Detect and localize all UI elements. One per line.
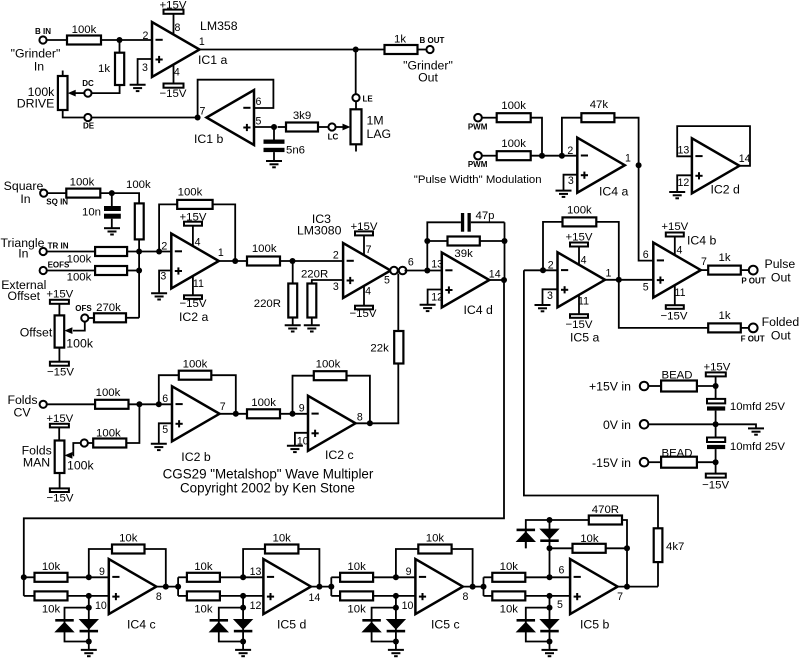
wire diode bottoms (IC5b)	[526, 632, 550, 649]
junction	[393, 574, 399, 580]
potentiometer 100k DRIVE	[17, 71, 68, 111]
svg-text:1k: 1k	[718, 252, 730, 264]
node Folds CV terminal	[40, 401, 47, 408]
svg-text:12: 12	[250, 600, 262, 612]
wire folded out	[619, 280, 708, 328]
junction (IC5d out)	[316, 584, 322, 590]
pin 11 -15V	[661, 285, 688, 322]
junction	[559, 153, 565, 159]
svg-text:10k: 10k	[119, 532, 138, 544]
resistor 100k feedback (IC2c)	[293, 358, 370, 423]
svg-text:100k: 100k	[96, 427, 121, 439]
svg-text:2: 2	[567, 145, 573, 157]
pin 3 ground	[535, 289, 558, 311]
resistor 1k (Grinder out)	[385, 34, 418, 55]
svg-text:+15V: +15V	[566, 231, 593, 243]
label External Offset	[1, 278, 46, 303]
svg-text:10mfd 25V: 10mfd 25V	[730, 441, 785, 453]
wire MAN pot bottom to -15V	[59, 473, 61, 488]
wiper arrow into MAN pot	[64, 443, 80, 459]
node TR IN terminal	[40, 242, 69, 256]
svg-text:5: 5	[557, 599, 563, 611]
resistor 47k feedback	[562, 99, 639, 165]
wire link to IC4d pin 13	[405, 270, 442, 272]
pin 3 ground	[556, 175, 578, 197]
wire 47p right side down	[504, 222, 506, 280]
pin 5 ground	[151, 423, 172, 450]
wire diode bottoms (IC5c)	[372, 632, 396, 649]
-15V (MAN pot)	[47, 488, 74, 504]
op-amp IC1b (mirrored)	[194, 90, 254, 146]
junction	[156, 249, 162, 255]
svg-text:8: 8	[156, 591, 162, 603]
svg-text:IC2 b: IC2 b	[181, 450, 211, 464]
svg-text:B OUT: B OUT	[420, 36, 445, 45]
svg-text:4: 4	[365, 286, 371, 298]
svg-text:14: 14	[309, 592, 321, 604]
pin 10 ground	[287, 433, 309, 452]
node +15V in terminal	[640, 382, 649, 391]
label Triangle In	[1, 236, 45, 261]
junction	[713, 459, 719, 465]
diode (IC5c clamp, cathode up)	[361, 619, 381, 632]
svg-text:10k: 10k	[426, 532, 445, 544]
svg-text:IC2 a: IC2 a	[179, 310, 209, 324]
diode (IC5b upper clamp, cathode up)	[516, 529, 536, 542]
diode (IC5b clamp, cathode up)	[516, 619, 536, 632]
junction	[240, 593, 246, 599]
svg-text:BEAD: BEAD	[661, 448, 692, 460]
wire diode tap (IC5d)	[219, 596, 243, 619]
svg-text:4: 4	[195, 236, 201, 248]
svg-text:PWM: PWM	[468, 160, 488, 169]
svg-text:P OUT: P OUT	[741, 277, 765, 286]
svg-text:100k: 100k	[66, 336, 94, 350]
svg-text:9: 9	[99, 566, 105, 578]
svg-text:+15V: +15V	[703, 361, 730, 373]
junction	[547, 517, 553, 523]
svg-text:7: 7	[220, 401, 226, 413]
junction	[624, 545, 630, 551]
svg-text:DE: DE	[83, 122, 95, 131]
resistor 470R	[589, 504, 627, 548]
resistor 4k7 (vertical)	[654, 528, 685, 586]
wiper arrow into LAG pot	[336, 124, 351, 131]
capacitor 10mfd 25V (upper)	[707, 386, 785, 424]
svg-text:IC1 a: IC1 a	[198, 53, 228, 67]
svg-text:5n6: 5n6	[286, 145, 305, 157]
pin 4 -15V	[350, 286, 377, 320]
junction (IC5b out)	[624, 584, 630, 590]
svg-text:6: 6	[559, 565, 565, 577]
resistor 100k (PWM lower)	[497, 138, 531, 160]
wire EOFS to R	[47, 270, 95, 272]
node DE terminal	[83, 114, 95, 131]
wire junction down to LE	[355, 50, 357, 95]
wiper arrow into DRIVE pot	[68, 90, 85, 97]
junction (input split IC5c)	[328, 584, 334, 590]
svg-text:10: 10	[95, 600, 107, 612]
wire diode bottoms (IC5d)	[219, 632, 243, 649]
svg-text:Offset: Offset	[8, 289, 41, 303]
wire MAN R to junction	[126, 404, 139, 443]
wire IC5d output	[311, 586, 331, 588]
node OFS terminal	[75, 304, 92, 321]
svg-text:6: 6	[256, 96, 262, 108]
wire to junction	[531, 118, 542, 156]
resistor 10k (IC5c non-inverting input)	[331, 591, 415, 615]
svg-text:470R: 470R	[592, 504, 619, 516]
capacitor 10mfd 25V (lower)	[707, 424, 785, 462]
+15V (offset pot)	[46, 288, 73, 315]
svg-text:MAN: MAN	[23, 455, 50, 469]
pin 11 -15V	[566, 295, 593, 331]
svg-text:+15V: +15V	[351, 221, 378, 233]
pin 13 feedback loop	[677, 126, 750, 166]
node B IN terminal	[35, 27, 51, 44]
resistor 220R (right)	[301, 269, 343, 325]
svg-text:7: 7	[200, 106, 206, 118]
diode (IC4c clamp, cathode up)	[54, 619, 74, 632]
resistor 100k (vertical, square)	[126, 179, 151, 252]
node F OUT terminal	[741, 324, 765, 344]
node -15V in terminal	[640, 458, 649, 467]
diode (IC5d clamp, cathode up)	[209, 619, 229, 632]
op-amp IC5b	[570, 559, 618, 632]
wire IC4c output	[156, 586, 178, 588]
svg-text:13: 13	[678, 144, 690, 156]
svg-text:Out: Out	[418, 71, 438, 85]
wire input split IC5d	[177, 577, 179, 596]
svg-text:3: 3	[547, 290, 553, 302]
junction	[393, 593, 399, 599]
node PWM terminal (lower)	[468, 152, 488, 169]
op-amp IC4a	[577, 138, 628, 199]
inductor BEAD (-15V)	[661, 448, 697, 468]
node LE terminal	[352, 94, 373, 103]
wire IC4d output	[489, 279, 504, 281]
op-amp IC4c	[109, 559, 157, 632]
svg-text:10: 10	[402, 600, 414, 612]
svg-text:EOFS: EOFS	[48, 261, 70, 270]
svg-text:In: In	[20, 192, 30, 206]
wire to P OUT	[741, 269, 749, 271]
resistor 100k (triangle in)	[67, 247, 127, 265]
op-amp IC4d	[442, 253, 493, 317]
wire long vertical (to 4k7)	[524, 270, 658, 528]
resistor 22k (vertical)	[370, 274, 403, 424]
wiper arrow into Offset pot	[64, 322, 84, 334]
resistor 10k (IC4c inverting input)	[35, 561, 109, 582]
svg-text:LM3080: LM3080	[297, 224, 342, 238]
wire diode tap (IC5c)	[372, 596, 396, 619]
svg-text:10k: 10k	[580, 533, 599, 545]
junction	[353, 47, 359, 53]
-15V (offset pot)	[47, 362, 74, 379]
wire summing vertical	[138, 252, 140, 318]
svg-text:100k: 100k	[178, 187, 203, 199]
wire PWM2 to R	[482, 155, 497, 157]
node B OUT terminal	[420, 36, 445, 53]
junction	[501, 277, 507, 283]
resistor 10k (IC5c inverting input)	[331, 561, 415, 582]
svg-text:IC5 d: IC5 d	[277, 618, 307, 632]
svg-text:LAG: LAG	[367, 127, 392, 141]
junction	[86, 574, 92, 580]
svg-text:−15V: −15V	[160, 88, 187, 100]
ground (10n)	[104, 228, 120, 234]
svg-text:"Grinder": "Grinder"	[11, 47, 61, 61]
svg-text:11: 11	[675, 287, 686, 299]
junction	[21, 574, 27, 580]
wire to summing line	[127, 270, 139, 272]
svg-text:IC5 b: IC5 b	[580, 618, 610, 632]
svg-text:1k: 1k	[98, 63, 110, 75]
wire bus from IC4d output to bottom row	[24, 280, 504, 596]
svg-text:5: 5	[256, 116, 262, 128]
op-amp IC2a	[171, 234, 219, 324]
svg-text:Folded: Folded	[762, 315, 800, 329]
svg-text:0V in: 0V in	[603, 418, 631, 432]
ground (IC5b diodes)	[542, 650, 558, 656]
potentiometer Folds MAN 100k	[22, 441, 95, 474]
svg-text:10k: 10k	[194, 561, 213, 573]
wire bus into IC4c plus R	[24, 595, 35, 597]
pin 11 -15V	[180, 276, 207, 310]
svg-text:100k: 100k	[567, 205, 592, 217]
svg-text:22k: 22k	[370, 343, 389, 355]
svg-text:Out: Out	[771, 271, 791, 285]
wire upper diode top (IC5b)	[526, 520, 589, 548]
svg-text:+15V: +15V	[46, 288, 73, 300]
svg-text:IC4 a: IC4 a	[599, 184, 629, 198]
svg-text:10: 10	[297, 435, 309, 447]
node 0V in terminal	[640, 420, 649, 429]
wire 470R/10k down to IC5b out	[626, 548, 628, 586]
wire IC2a output	[219, 260, 293, 262]
resistor 100k (folds MAN)	[88, 427, 126, 447]
resistor 10k (IC5d inverting input)	[178, 561, 263, 582]
svg-text:−15V: −15V	[702, 480, 729, 492]
wire IC5a out to IC4b pin 5	[605, 279, 653, 281]
junction	[240, 605, 246, 611]
resistor 100k feedback (IC2b)	[159, 358, 236, 414]
resistor 100k (folds CV)	[95, 387, 128, 409]
svg-text:1: 1	[625, 152, 631, 164]
svg-text:5: 5	[643, 281, 649, 293]
svg-text:In: In	[34, 60, 44, 74]
svg-text:−15V: −15V	[350, 308, 377, 320]
junction (IC4a out)	[636, 162, 642, 168]
svg-text:10k: 10k	[273, 532, 292, 544]
resistor 1k (pulse out)	[708, 252, 741, 275]
resistor 10k (IC5b inverting input)	[484, 561, 571, 582]
svg-text:100k: 100k	[96, 387, 121, 399]
svg-text:4: 4	[581, 254, 587, 266]
svg-text:8: 8	[357, 412, 363, 424]
wire diode tap (IC5b)	[526, 596, 550, 619]
wire TR IN to R	[47, 251, 95, 253]
svg-text:IC4 c: IC4 c	[127, 618, 156, 632]
wire IC5c output	[463, 586, 484, 588]
wire diode bottoms (IC4c)	[65, 632, 89, 649]
svg-text:7: 7	[366, 244, 372, 256]
svg-text:100k: 100k	[252, 243, 277, 255]
junction (IC5c out)	[470, 584, 476, 590]
svg-text:4k7: 4k7	[666, 541, 684, 553]
junction (pin 7)	[195, 115, 201, 121]
resistor 100k (Grinder input)	[67, 24, 101, 45]
resistor 220R (left)	[254, 261, 297, 325]
svg-text:−15V: −15V	[47, 366, 74, 378]
svg-text:IC5 c: IC5 c	[431, 618, 460, 632]
svg-text:10k: 10k	[347, 561, 366, 573]
IC2a feedback 100k	[159, 187, 235, 261]
svg-text:DRIVE: DRIVE	[17, 97, 55, 111]
capacitor 47p feedback	[427, 210, 504, 271]
svg-text:13: 13	[250, 566, 262, 578]
svg-text:5: 5	[162, 424, 168, 436]
op-amp IC1a	[152, 19, 238, 77]
label "Grinder" In	[11, 47, 61, 74]
svg-text:TR IN: TR IN	[48, 242, 69, 251]
diode (IC5b clamp, cathode down)	[539, 619, 559, 632]
svg-text:10n: 10n	[82, 207, 101, 219]
svg-text:12: 12	[431, 291, 443, 303]
wire input split IC5c	[330, 577, 332, 596]
wire bus into IC4c minus R	[24, 576, 35, 578]
svg-text:2: 2	[161, 241, 167, 253]
svg-text:CV: CV	[13, 406, 31, 420]
ground (IC5c diodes)	[388, 650, 404, 656]
junction	[240, 639, 246, 645]
svg-text:6: 6	[162, 393, 168, 405]
pin 12 ground	[669, 175, 692, 198]
junction (IC3 pin 2 node)	[290, 258, 296, 264]
wire to IC2a pin 2	[127, 251, 171, 253]
junction	[539, 153, 545, 159]
junction	[136, 268, 142, 274]
svg-text:4: 4	[676, 245, 682, 257]
wire IC2b out	[220, 413, 309, 415]
svg-text:DC: DC	[82, 79, 94, 88]
svg-text:Out: Out	[771, 329, 791, 343]
junction	[713, 421, 719, 427]
svg-text:10k: 10k	[347, 603, 366, 615]
-15V rail symbol	[702, 462, 729, 492]
wire diode tap (IC4c)	[65, 596, 89, 619]
node LC terminal	[328, 123, 339, 141]
svg-text:1: 1	[606, 267, 612, 279]
junction	[393, 605, 399, 611]
wire to IC4a pin 2	[531, 155, 578, 157]
wire CV to R	[47, 403, 95, 405]
svg-text:−15V: −15V	[47, 493, 74, 505]
wire pot bottom to -15V	[58, 348, 60, 362]
junction (IC4c out)	[163, 584, 169, 590]
svg-text:IC2 c: IC2 c	[325, 448, 354, 462]
junction	[86, 605, 92, 611]
node DC terminal	[82, 79, 94, 97]
junction	[540, 267, 546, 273]
node PWM terminal (upper)	[468, 114, 488, 131]
svg-text:10k: 10k	[500, 561, 519, 573]
junction	[271, 124, 277, 130]
svg-text:100k: 100k	[501, 100, 526, 112]
junction	[86, 593, 92, 599]
svg-text:B IN: B IN	[35, 27, 51, 36]
svg-text:1: 1	[199, 36, 205, 48]
wire IC2c out to 22k	[356, 422, 400, 424]
node link circles (5-6)	[390, 267, 406, 275]
svg-text:13: 13	[431, 259, 443, 271]
wire long feedback to IC5a pin 2	[524, 269, 558, 271]
op-amp IC3 LM3080	[297, 212, 391, 298]
svg-text:100k: 100k	[501, 138, 526, 150]
diode (IC5b upper clamp, cathode down)	[539, 529, 559, 542]
pin 4 +15V	[566, 231, 593, 266]
svg-text:3k9: 3k9	[293, 110, 311, 122]
pin 8 +15V	[160, 0, 187, 35]
op-amp IC2c	[308, 396, 356, 462]
label Square In	[4, 179, 44, 206]
resistor 1k (folded out)	[708, 310, 741, 333]
wire to BEAD	[648, 461, 661, 463]
svg-text:IC4 d: IC4 d	[464, 303, 494, 317]
IC1b feedback wire	[198, 80, 274, 118]
pin 3 ground	[151, 270, 171, 299]
svg-text:10k: 10k	[500, 603, 519, 615]
svg-text:10mfd 25V: 10mfd 25V	[730, 401, 785, 413]
resistor 1k (vertical)	[98, 40, 124, 85]
node MAN terminal	[81, 439, 88, 446]
wire BEAD to -15V rail	[697, 461, 716, 463]
svg-text:14: 14	[489, 269, 501, 281]
svg-text:3: 3	[568, 175, 574, 187]
svg-text:7: 7	[617, 591, 623, 603]
wire pin 5	[254, 126, 274, 128]
svg-text:F OUT: F OUT	[741, 335, 765, 344]
junction	[232, 258, 238, 264]
junction (IC2c out)	[367, 420, 373, 426]
ground (IC4c diodes)	[81, 650, 97, 656]
svg-text:IC4 b: IC4 b	[687, 233, 717, 247]
label Folds CV	[7, 393, 37, 420]
svg-text:3: 3	[333, 281, 339, 293]
junction	[547, 545, 553, 551]
svg-text:-15V in: -15V in	[592, 456, 631, 470]
junction	[713, 383, 719, 389]
wire to IC3	[293, 260, 344, 262]
op-amp IC5a	[558, 252, 606, 344]
pin 3 ground	[130, 59, 152, 91]
junction	[424, 238, 430, 244]
resistor 100k feedback (IC5a)	[543, 205, 619, 280]
+15V (MAN pot)	[46, 413, 73, 440]
junction	[156, 401, 162, 407]
svg-text:LE: LE	[363, 95, 374, 104]
resistor 100k (IC2b out)	[247, 397, 280, 418]
pin 4 -15V	[160, 64, 187, 100]
wire 0V to ground	[648, 424, 756, 428]
op-amp IC5c	[415, 559, 463, 632]
svg-text:IC2 d: IC2 d	[711, 182, 741, 196]
pin 7 +15V	[351, 221, 378, 256]
pin 4 +15V	[661, 221, 688, 257]
ground (220R left)	[285, 325, 301, 331]
svg-text:+15V: +15V	[661, 221, 688, 233]
wire IC4a out down to IC4b pin 6	[639, 165, 654, 260]
